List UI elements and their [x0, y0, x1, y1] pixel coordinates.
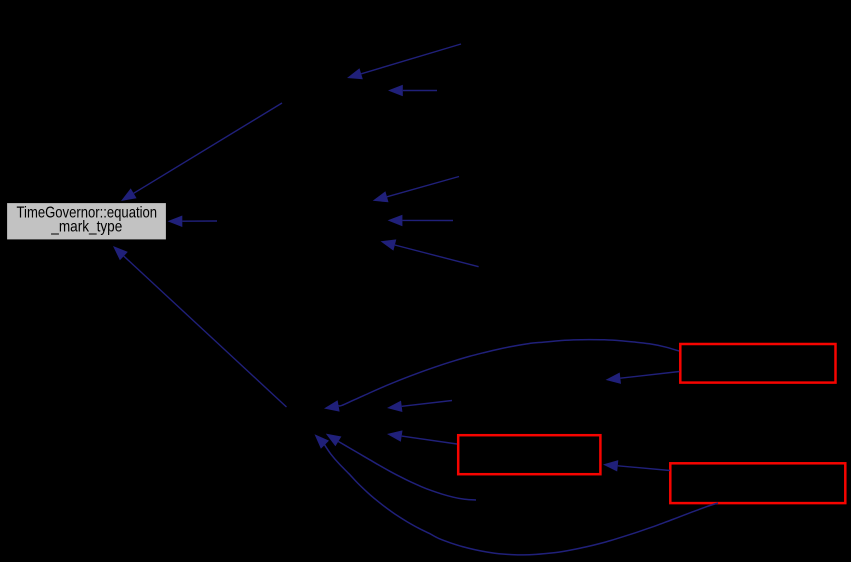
edge curve from hidden node below red middle node to bottom hidden node: [326, 434, 476, 500]
edge arrow into middle hidden node (center): [388, 215, 453, 227]
edge from middle hidden node to TimeGovernor::equation_mark_type: [168, 216, 218, 228]
svg-text:_mark_type: _mark_type: [50, 218, 122, 235]
edge long bottom curve from red bottom node to bottom hidden node: [315, 434, 719, 555]
edge arrow into top hidden node (upper): [347, 44, 461, 79]
edge from top hidden node to TimeGovernor::equation_mark_type: [121, 103, 282, 201]
node (red, top right): [680, 344, 835, 383]
node (red, middle): [458, 435, 600, 474]
edge curve from red top node over to bottom hidden node: [324, 340, 679, 412]
edge from bottom hidden node to TimeGovernor::equation_mark_type: [113, 246, 287, 407]
edge from red top node to hidden node (straight): [606, 372, 680, 384]
edge from red middle node to bottom hidden node: [387, 430, 457, 444]
edge from red bottom node to red middle node: [603, 460, 670, 471]
node (red, bottom right): [670, 463, 845, 503]
edge arrow into middle hidden node (lower): [381, 239, 479, 266]
edge arrow into middle hidden node (upper): [373, 177, 459, 203]
node TimeGovernor::equation_mark_type (current, gray): [7, 203, 167, 241]
edge arrow into bottom hidden node (upper): [387, 401, 452, 413]
edge arrow into top hidden node (lower): [388, 85, 437, 96]
